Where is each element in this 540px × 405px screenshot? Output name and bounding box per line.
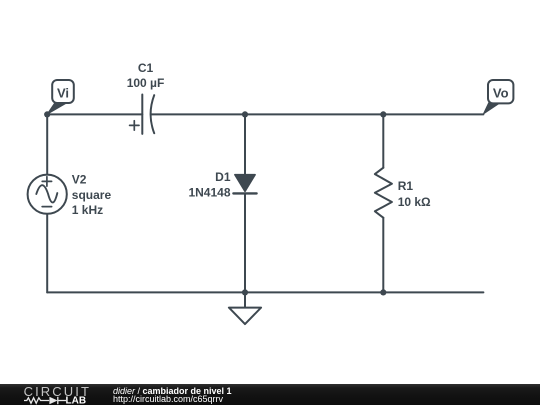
junction dot ground rail	[242, 289, 248, 295]
svg-text:Vo: Vo	[493, 86, 509, 101]
junction dot diode top	[242, 111, 248, 117]
wire left rail lower (V2 bottom to ground rail)	[46, 214, 48, 293]
wire top segment C1 to Vo	[151, 113, 483, 115]
svg-text:C1: C1	[138, 61, 154, 75]
wire diode branch top	[244, 114, 246, 175]
svg-text:10 kΩ: 10 kΩ	[398, 195, 431, 209]
svg-text:Vi: Vi	[57, 86, 69, 101]
junction dot at Vi node	[44, 111, 50, 117]
label Vo	[493, 86, 509, 101]
junction dot resistor bottom	[380, 289, 386, 295]
CircuitLab logo	[0, 384, 100, 405]
capacitor C1	[130, 95, 155, 134]
svg-text:D1: D1	[215, 170, 231, 184]
label C1 value	[127, 76, 165, 90]
label D1 part number	[188, 185, 230, 199]
svg-text:100 µF: 100 µF	[127, 76, 165, 90]
label V2 type	[72, 188, 112, 202]
diode D1	[233, 175, 256, 194]
footer bar	[0, 384, 540, 405]
label C1 designator	[138, 61, 154, 75]
ground	[229, 292, 261, 324]
label Vi	[57, 86, 69, 101]
wire bottom rail	[47, 291, 483, 293]
resistor R1	[375, 168, 392, 218]
junction dot resistor top	[380, 111, 386, 117]
label V2 designator	[72, 173, 87, 187]
node flag Vi	[47, 80, 74, 114]
svg-text:1 kHz: 1 kHz	[72, 203, 103, 217]
svg-text:V2: V2	[72, 173, 87, 187]
wire resistor branch bottom	[382, 218, 384, 293]
footer text	[113, 385, 232, 404]
wire left rail upper (Vi node to V2 top)	[46, 114, 48, 174]
label D1 designator	[215, 170, 231, 184]
svg-text:R1: R1	[398, 179, 414, 193]
svg-text:1N4148: 1N4148	[188, 185, 230, 199]
label V2 frequency	[72, 203, 103, 217]
node flag Vo	[483, 80, 513, 114]
wire resistor branch top	[382, 114, 384, 167]
wire top segment Vi to C1	[47, 113, 142, 115]
label R1 designator	[398, 179, 414, 193]
voltage source V2	[28, 175, 67, 214]
svg-text:square: square	[72, 188, 112, 202]
svg-text:LAB: LAB	[66, 395, 87, 405]
wire diode branch bottom	[244, 193, 246, 292]
label R1 value	[398, 195, 431, 209]
